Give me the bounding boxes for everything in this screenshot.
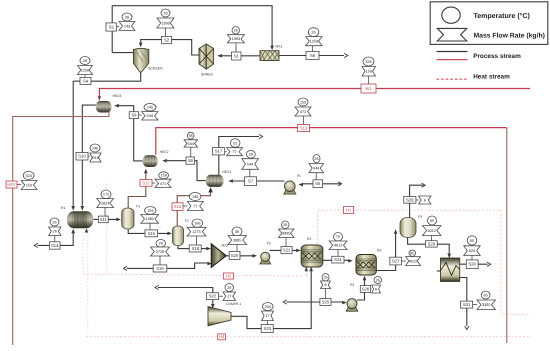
svg-text:S4: S4 bbox=[83, 78, 89, 83]
svg-text:S9: S9 bbox=[131, 113, 137, 118]
svg-text:77: 77 bbox=[193, 204, 197, 208]
svg-text:26: 26 bbox=[314, 157, 318, 161]
svg-text:S8: S8 bbox=[188, 158, 194, 163]
svg-text:65: 65 bbox=[470, 239, 474, 243]
svg-text:36: 36 bbox=[235, 230, 239, 234]
svg-text:65: 65 bbox=[484, 293, 488, 297]
svg-text:1275: 1275 bbox=[192, 230, 200, 234]
svg-text:6: 6 bbox=[324, 283, 326, 287]
svg-text:S18: S18 bbox=[191, 246, 199, 251]
svg-text:1823: 1823 bbox=[101, 202, 109, 206]
svg-text:P2: P2 bbox=[267, 242, 271, 246]
svg-text:26: 26 bbox=[376, 278, 380, 282]
svg-text:4012: 4012 bbox=[409, 259, 417, 263]
svg-text:SHRED: SHRED bbox=[201, 72, 213, 76]
svg-text:544: 544 bbox=[313, 167, 319, 171]
svg-text:1393: 1393 bbox=[161, 21, 169, 25]
svg-text:3995: 3995 bbox=[282, 232, 290, 236]
svg-text:3392: 3392 bbox=[482, 303, 490, 307]
svg-text:544: 544 bbox=[188, 142, 194, 146]
svg-text:HP2: HP2 bbox=[7, 182, 16, 187]
svg-text:26: 26 bbox=[323, 276, 327, 280]
svg-text:F1: F1 bbox=[136, 205, 140, 209]
svg-text:1393: 1393 bbox=[232, 37, 240, 41]
svg-text:26: 26 bbox=[311, 31, 315, 35]
svg-text:26: 26 bbox=[159, 242, 163, 246]
svg-text:S24: S24 bbox=[334, 257, 342, 262]
svg-text:52: 52 bbox=[233, 141, 237, 145]
svg-text:6: 6 bbox=[424, 198, 426, 202]
svg-text:544: 544 bbox=[247, 162, 253, 166]
svg-text:R3: R3 bbox=[377, 249, 381, 253]
svg-text:17: 17 bbox=[265, 314, 269, 318]
svg-text:S10: S10 bbox=[78, 154, 86, 159]
svg-text:198: 198 bbox=[192, 195, 198, 199]
svg-text:R1: R1 bbox=[61, 206, 65, 210]
svg-text:471: 471 bbox=[300, 110, 306, 114]
svg-text:143: 143 bbox=[124, 24, 130, 28]
svg-text:26: 26 bbox=[125, 15, 129, 19]
svg-text:324: 324 bbox=[365, 60, 371, 64]
svg-text:S1: S1 bbox=[234, 53, 240, 58]
svg-text:204: 204 bbox=[265, 305, 271, 309]
svg-text:1256: 1256 bbox=[81, 68, 89, 72]
svg-text:S28: S28 bbox=[406, 197, 414, 202]
svg-text:26: 26 bbox=[249, 153, 253, 157]
svg-text:S23: S23 bbox=[263, 326, 271, 331]
svg-text:W1: W1 bbox=[365, 86, 372, 91]
svg-text:S30: S30 bbox=[468, 262, 476, 267]
svg-text:2728: 2728 bbox=[156, 250, 164, 254]
svg-text:S11: S11 bbox=[100, 217, 108, 222]
svg-text:MX2: MX2 bbox=[222, 243, 229, 247]
svg-text:153: 153 bbox=[300, 100, 306, 104]
svg-text:26: 26 bbox=[283, 223, 287, 227]
svg-text:COMPR-1: COMPR-1 bbox=[226, 302, 241, 306]
svg-text:26: 26 bbox=[227, 286, 231, 290]
svg-text:Temperature (°C): Temperature (°C) bbox=[474, 12, 530, 20]
svg-text:S20: S20 bbox=[231, 253, 239, 258]
svg-text:S26: S26 bbox=[362, 286, 370, 291]
svg-text:150: 150 bbox=[26, 183, 32, 187]
svg-text:1382: 1382 bbox=[145, 217, 153, 221]
svg-text:S27: S27 bbox=[392, 258, 400, 263]
svg-text:95: 95 bbox=[189, 134, 193, 138]
svg-text:324: 324 bbox=[25, 174, 31, 178]
svg-text:75: 75 bbox=[336, 235, 340, 239]
svg-text:S14: S14 bbox=[51, 243, 59, 248]
svg-text:26: 26 bbox=[163, 11, 167, 15]
svg-text:1259: 1259 bbox=[310, 40, 318, 44]
svg-text:S12: S12 bbox=[142, 180, 150, 185]
svg-text:Heat stream: Heat stream bbox=[473, 73, 510, 80]
svg-text:H1: H1 bbox=[346, 207, 352, 212]
svg-text:544: 544 bbox=[92, 156, 98, 160]
svg-text:26: 26 bbox=[234, 29, 238, 33]
svg-text:S17: S17 bbox=[215, 149, 223, 154]
svg-text:H2: H2 bbox=[226, 273, 232, 278]
svg-text:65: 65 bbox=[430, 219, 434, 223]
svg-text:26: 26 bbox=[83, 59, 87, 63]
svg-text:S2: S2 bbox=[164, 37, 170, 42]
svg-text:172: 172 bbox=[103, 193, 109, 197]
svg-text:S19: S19 bbox=[156, 266, 164, 271]
svg-text:S16: S16 bbox=[174, 204, 182, 209]
svg-text:620: 620 bbox=[469, 249, 475, 253]
svg-text:S15: S15 bbox=[148, 231, 156, 236]
svg-text:471: 471 bbox=[160, 182, 166, 186]
svg-text:F3: F3 bbox=[418, 215, 422, 219]
svg-text:P3: P3 bbox=[350, 283, 354, 287]
svg-text:H4: H4 bbox=[219, 334, 225, 339]
svg-text:Mass Flow Rate (kg/h): Mass Flow Rate (kg/h) bbox=[474, 33, 545, 40]
svg-text:S7: S7 bbox=[248, 179, 254, 184]
svg-text:HEX1: HEX1 bbox=[223, 170, 232, 174]
svg-text:150: 150 bbox=[366, 70, 372, 74]
svg-text:SCREEN: SCREEN bbox=[148, 66, 163, 70]
svg-text:145: 145 bbox=[147, 106, 153, 110]
svg-text:F2: F2 bbox=[185, 219, 189, 223]
svg-text:166: 166 bbox=[194, 222, 200, 226]
svg-text:6: 6 bbox=[375, 287, 377, 291]
svg-text:17: 17 bbox=[227, 295, 231, 299]
svg-text:MX1: MX1 bbox=[276, 44, 283, 48]
svg-text:S22: S22 bbox=[209, 294, 217, 299]
svg-text:S3: S3 bbox=[109, 24, 115, 29]
svg-text:159: 159 bbox=[160, 174, 166, 178]
svg-text:Process stream: Process stream bbox=[473, 53, 521, 60]
svg-text:S13: S13 bbox=[300, 125, 308, 130]
svg-text:P1: P1 bbox=[297, 174, 301, 178]
svg-text:S29: S29 bbox=[428, 241, 436, 246]
svg-text:S6: S6 bbox=[310, 53, 316, 58]
svg-text:HEX3: HEX3 bbox=[113, 94, 122, 98]
svg-text:S31: S31 bbox=[463, 302, 471, 307]
svg-text:159: 159 bbox=[147, 209, 153, 213]
svg-text:S25: S25 bbox=[322, 299, 330, 304]
svg-text:26: 26 bbox=[53, 230, 57, 234]
svg-text:65: 65 bbox=[410, 252, 414, 256]
svg-text:3985: 3985 bbox=[233, 238, 241, 242]
svg-text:S21: S21 bbox=[283, 248, 291, 253]
svg-text:R2: R2 bbox=[307, 237, 311, 241]
svg-text:4012: 4012 bbox=[428, 229, 436, 233]
svg-text:544: 544 bbox=[147, 114, 153, 118]
svg-text:77: 77 bbox=[232, 150, 236, 154]
svg-text:26: 26 bbox=[52, 220, 56, 224]
svg-text:S5: S5 bbox=[315, 181, 321, 186]
svg-text:4012: 4012 bbox=[334, 244, 342, 248]
svg-text:190: 190 bbox=[92, 146, 98, 150]
svg-text:HEX2: HEX2 bbox=[160, 150, 169, 154]
